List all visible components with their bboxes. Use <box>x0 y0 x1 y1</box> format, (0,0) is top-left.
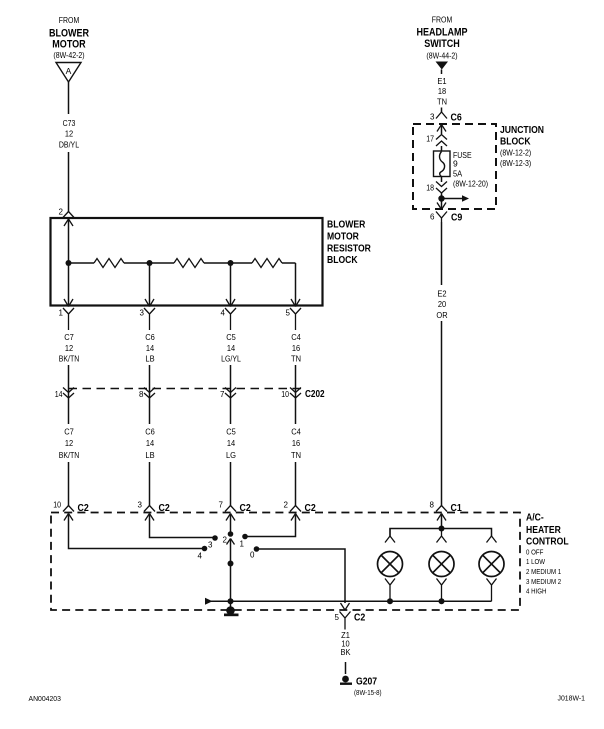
wire col1 to C2 <box>68 462 70 506</box>
wire label C73 12 DB/YL <box>59 118 79 150</box>
svg-text:12: 12 <box>65 129 74 139</box>
lamp 3 top clevis <box>487 536 497 543</box>
pin 3 connector <box>144 299 155 330</box>
svg-text:5: 5 <box>286 309 291 318</box>
svg-text:(8W-15-8): (8W-15-8) <box>354 688 382 697</box>
wire pin2 to contact 1 <box>248 514 296 537</box>
wire col4 between C202 and labels <box>295 398 297 424</box>
wire col1 down inside block <box>68 263 70 305</box>
svg-text:14: 14 <box>55 390 63 399</box>
svg-text:BLOCK: BLOCK <box>327 254 358 266</box>
fuse label FUSE 9 5A (8W-12-20) <box>453 150 488 189</box>
svg-text:C4: C4 <box>291 332 301 342</box>
svg-text:CONTROL: CONTROL <box>526 536 569 548</box>
junction block pin 17 chevrons <box>436 135 447 147</box>
lamp 1 (illumination) <box>378 552 403 577</box>
wire to ground <box>345 662 347 674</box>
svg-text:3 MEDIUM 2: 3 MEDIUM 2 <box>526 577 561 586</box>
svg-text:18: 18 <box>438 86 447 96</box>
svg-text:C1: C1 <box>451 503 463 514</box>
svg-text:C2: C2 <box>78 503 90 514</box>
connector C202 dashed line <box>69 388 302 390</box>
svg-text:J018W-1: J018W-1 <box>558 694 586 703</box>
svg-text:8: 8 <box>430 501 435 510</box>
wire label C6 14 LB upper <box>145 332 155 364</box>
wire label E2 20 OR <box>436 289 447 321</box>
svg-text:5: 5 <box>335 613 340 622</box>
ground G207 symbol <box>340 676 352 685</box>
svg-text:3: 3 <box>138 501 143 510</box>
A/C-heater control label <box>526 512 569 596</box>
junction dot in junction block <box>438 195 444 201</box>
svg-text:C9: C9 <box>451 213 463 224</box>
bus wire <box>211 600 492 602</box>
svg-text:(8W-12-20): (8W-12-20) <box>453 179 488 189</box>
junction dot on bus col2 <box>147 260 153 266</box>
svg-text:8: 8 <box>139 390 144 399</box>
svg-text:4: 4 <box>198 552 203 561</box>
wire below fuse <box>441 177 443 183</box>
svg-text:14: 14 <box>227 438 236 448</box>
wire pin2 down to internal bus <box>68 219 70 263</box>
wire col1 between C202 and labels <box>68 398 70 424</box>
junction block dashed box <box>413 124 496 209</box>
svg-text:A/C-: A/C- <box>526 512 544 524</box>
svg-text:12: 12 <box>65 438 74 448</box>
svg-text:12: 12 <box>65 343 74 353</box>
svg-text:LG: LG <box>226 450 236 460</box>
wire into junction block <box>441 125 443 135</box>
wire col3 to C2 <box>230 462 232 506</box>
lamp 2 bottom clevis <box>437 579 447 602</box>
svg-text:C2: C2 <box>240 503 252 514</box>
wire to junction dot <box>441 193 443 209</box>
lamp 3 bottom clevis <box>487 579 497 602</box>
svg-text:BLOWER: BLOWER <box>327 219 366 231</box>
wire label C7 12 BK/TN upper <box>59 332 80 364</box>
svg-text:17: 17 <box>426 135 434 144</box>
svg-text:7: 7 <box>219 501 224 510</box>
pin 2 connector into resistor block <box>63 212 74 227</box>
lamp 2 top clevis <box>437 529 447 543</box>
junction dot on bus col3 <box>228 260 234 266</box>
junction dot on bus col1 <box>66 260 72 266</box>
blower motor resistor block label <box>327 219 371 267</box>
svg-text:2: 2 <box>284 501 289 510</box>
wire col2 to C202 <box>149 365 151 398</box>
svg-text:16: 16 <box>292 438 301 448</box>
svg-text:3: 3 <box>208 541 213 550</box>
svg-text:SWITCH: SWITCH <box>424 38 460 50</box>
wire col3 down inside block <box>230 263 232 305</box>
wire label C4 16 TN upper <box>291 332 301 364</box>
wire label C5 14 LG lower <box>226 427 236 461</box>
svg-text:FROM: FROM <box>59 15 80 25</box>
wire col4 to C202 <box>295 365 297 398</box>
resistor R1 <box>94 259 124 268</box>
svg-text:14: 14 <box>146 343 155 353</box>
switch contact 0 dot <box>254 546 260 552</box>
wiper splice dot <box>228 561 234 567</box>
fuse F9 body <box>434 151 451 177</box>
arrow into junction block <box>437 125 446 132</box>
svg-text:1: 1 <box>59 309 64 318</box>
resistor R3 <box>252 259 282 268</box>
svg-text:FROM: FROM <box>432 15 453 25</box>
wiper pivot dot on box edge <box>226 606 235 615</box>
svg-text:OR: OR <box>436 310 447 320</box>
wire label C5 14 LG/YL upper <box>221 332 241 364</box>
junction dot bus-lamp1 <box>387 598 393 604</box>
junction block pin 18 chevrons <box>436 182 447 194</box>
connector A triangle (from blower motor) <box>56 63 81 83</box>
svg-text:G207: G207 <box>356 676 377 688</box>
svg-text:(8W-12-2): (8W-12-2) <box>500 148 531 158</box>
svg-text:HEATER: HEATER <box>526 524 561 536</box>
svg-text:C202: C202 <box>305 389 325 400</box>
wire label C4 16 TN lower <box>291 427 301 461</box>
lamp feed wire from pin 8 <box>441 514 443 529</box>
pin 5 C2 fork <box>340 612 351 630</box>
svg-text:10: 10 <box>53 501 61 510</box>
svg-text:C5: C5 <box>226 332 236 342</box>
lamp 1 bottom clevis <box>385 579 395 602</box>
junction dot bus-lamp2 <box>439 598 445 604</box>
svg-text:6: 6 <box>430 213 435 222</box>
svg-text:TN: TN <box>437 97 447 107</box>
wire col3 between C202 and labels <box>230 398 232 424</box>
svg-text:E1: E1 <box>437 76 446 86</box>
wire contact 0 to pin 5 <box>257 549 346 603</box>
svg-text:DB/YL: DB/YL <box>59 140 79 150</box>
svg-text:BK: BK <box>341 647 351 657</box>
wire below triangle <box>441 70 443 75</box>
junction block label <box>500 124 544 168</box>
svg-text:18: 18 <box>426 184 434 193</box>
bus arrow head (left end) <box>205 598 213 605</box>
arrow out of junction block bottom <box>437 203 446 210</box>
wire col4 down inside block <box>295 263 297 305</box>
lamp 2 (illumination) <box>429 552 454 577</box>
svg-text:C2: C2 <box>354 613 366 624</box>
svg-text:AN004203: AN004203 <box>29 694 61 703</box>
filled triangle connector (from headlamp switch) <box>436 62 449 70</box>
svg-text:TN: TN <box>291 450 301 460</box>
svg-text:C7: C7 <box>64 427 74 437</box>
pin 7 C2 connector <box>225 506 236 521</box>
svg-text:(8W-42-2): (8W-42-2) <box>53 50 84 60</box>
switch wiper arrow <box>227 539 235 545</box>
svg-text:3: 3 <box>430 113 435 122</box>
wire to C6 <box>441 108 443 113</box>
svg-text:C7: C7 <box>64 332 74 342</box>
wire from triangle A down <box>68 82 70 114</box>
pin 3 C2 connector <box>144 506 155 521</box>
svg-text:3: 3 <box>140 309 145 318</box>
svg-text:A: A <box>66 66 72 76</box>
svg-text:C2: C2 <box>159 503 171 514</box>
svg-text:0: 0 <box>250 551 255 560</box>
pin 8 C1 connector <box>436 506 447 521</box>
svg-text:14: 14 <box>227 343 236 353</box>
node FROM HEADLAMP SWITCH header <box>416 15 467 61</box>
svg-text:20: 20 <box>438 299 447 309</box>
internal bus wire segments <box>69 262 296 264</box>
C202 chevrons col1 <box>63 388 74 399</box>
wire pin3 to contact 3 <box>150 514 213 538</box>
wire col3 to C202 <box>230 365 232 398</box>
svg-text:1: 1 <box>240 540 245 549</box>
svg-text:BK/TN: BK/TN <box>59 450 80 460</box>
svg-text:16: 16 <box>292 343 301 353</box>
svg-text:10: 10 <box>281 390 289 399</box>
svg-text:C4: C4 <box>291 427 301 437</box>
svg-text:LG/YL: LG/YL <box>221 354 241 364</box>
wire label C6 14 LB lower <box>145 427 155 461</box>
wiper pivot bar <box>224 614 239 617</box>
svg-text:C6: C6 <box>145 427 155 437</box>
wire to fuse <box>441 146 443 151</box>
svg-text:BLOCK: BLOCK <box>500 136 531 148</box>
connector C9 fork <box>436 212 447 223</box>
switch contact 4 dot <box>202 546 208 552</box>
C202 chevrons col3 <box>225 388 236 399</box>
pin 5 C2 arrow out <box>341 603 350 610</box>
arrow to other circuits <box>442 195 470 202</box>
svg-text:MOTOR: MOTOR <box>327 231 359 243</box>
wire col1 to C202 <box>68 365 70 398</box>
svg-text:(8W-44-2): (8W-44-2) <box>426 51 457 61</box>
pin 2 C2 connector <box>290 506 301 521</box>
wire col2 to C2 <box>149 462 151 506</box>
svg-text:RESISTOR: RESISTOR <box>327 243 371 255</box>
svg-text:HEADLAMP: HEADLAMP <box>416 27 467 39</box>
svg-text:(8W-12-3): (8W-12-3) <box>500 158 531 168</box>
svg-text:5A: 5A <box>453 169 462 179</box>
svg-text:7: 7 <box>220 390 225 399</box>
blower motor resistor block box <box>51 218 323 306</box>
svg-text:E2: E2 <box>437 289 446 299</box>
wire col2 between C202 and labels <box>149 398 151 424</box>
node FROM BLOWER MOTOR header <box>49 15 89 60</box>
svg-text:2 MEDIUM 1: 2 MEDIUM 1 <box>526 567 561 576</box>
wire col4 to C2 <box>295 462 297 506</box>
wire label E1 18 TN <box>437 76 447 107</box>
connector C6 fork <box>436 112 447 119</box>
svg-text:14: 14 <box>146 438 155 448</box>
A/C-heater control dashed box <box>51 513 520 611</box>
svg-text:4 HIGH: 4 HIGH <box>526 587 547 596</box>
svg-text:JUNCTION: JUNCTION <box>500 124 544 136</box>
wire pin7 to contact 2 <box>230 514 232 535</box>
pin 5 connector <box>290 299 301 330</box>
wire down to C1 <box>441 321 443 506</box>
svg-text:4: 4 <box>221 309 226 318</box>
switch contact 3 dot <box>212 535 218 541</box>
svg-text:C73: C73 <box>63 118 76 128</box>
wire to resistor block <box>68 152 70 212</box>
switch wiper wire <box>230 539 232 611</box>
lamp feed junction dot <box>439 526 445 532</box>
svg-text:LB: LB <box>145 354 154 364</box>
svg-text:9: 9 <box>453 159 458 169</box>
C202 chevrons col4 <box>290 388 301 399</box>
svg-text:TN: TN <box>291 354 301 364</box>
resistor R2 <box>174 259 204 268</box>
svg-text:LB: LB <box>145 450 154 460</box>
wire col2 down inside block <box>149 263 151 305</box>
lamp 3 (illumination) <box>479 552 504 577</box>
wire label C7 12 BK/TN lower <box>59 427 80 461</box>
lamp 1 top clevis <box>385 529 395 543</box>
pin 4 connector <box>225 299 236 330</box>
svg-text:2: 2 <box>59 208 64 217</box>
switch contact 1 dot <box>242 534 248 540</box>
wire C9 down <box>441 222 443 285</box>
svg-text:1 LOW: 1 LOW <box>526 557 546 566</box>
svg-text:C2: C2 <box>305 503 317 514</box>
svg-text:BK/TN: BK/TN <box>59 354 80 364</box>
wire pin10 to contact 4 <box>69 514 203 549</box>
pin 1 connector <box>63 299 74 330</box>
svg-text:C5: C5 <box>226 427 236 437</box>
pin 10 C2 connector <box>63 506 74 521</box>
wire label Z1 10 BK <box>341 630 351 657</box>
svg-text:MOTOR: MOTOR <box>52 39 85 51</box>
C202 chevrons col2 <box>144 388 155 399</box>
junction dot bus-wiper <box>228 598 234 604</box>
svg-text:0 OFF: 0 OFF <box>526 548 544 557</box>
lamp distribution wire <box>390 529 492 537</box>
svg-text:C6: C6 <box>145 332 155 342</box>
switch contact 2 dot <box>228 531 234 537</box>
svg-text:C6: C6 <box>451 113 463 124</box>
